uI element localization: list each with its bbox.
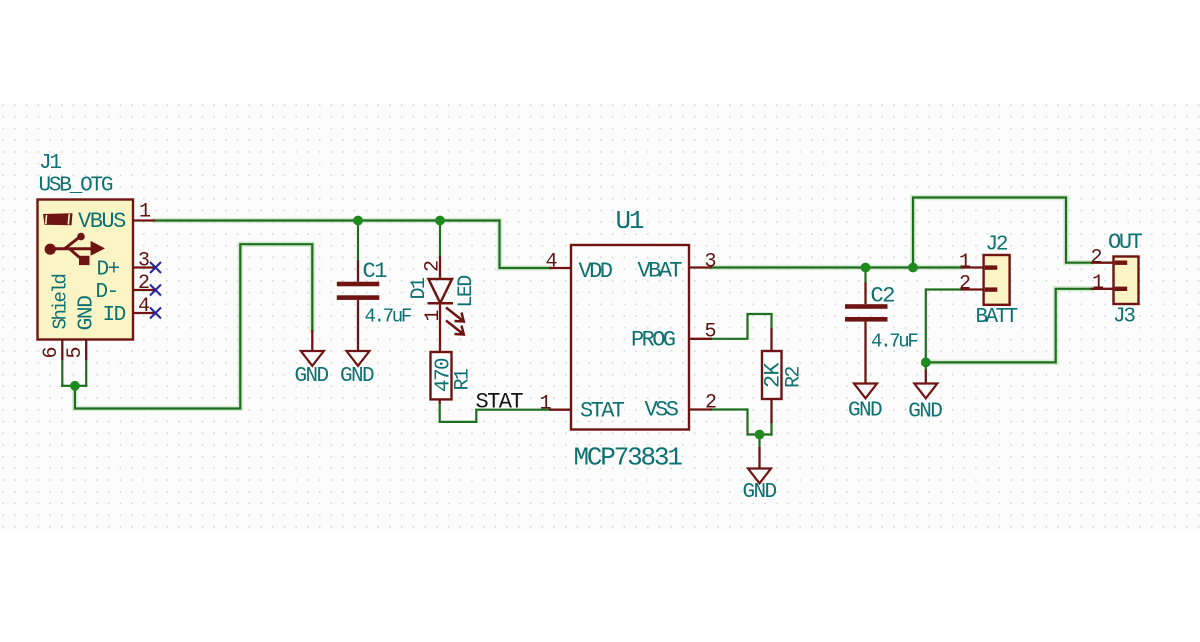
lead batt gnd [925, 370, 927, 384]
led D1 triangle [428, 279, 464, 335]
pin J1-4 ID [133, 312, 155, 314]
junction C2/VBAT [861, 263, 871, 273]
led D1 arrows [446, 308, 463, 321]
wire D1 top [439, 221, 441, 257]
svg-text:BATT: BATT [976, 306, 1018, 329]
pin numbers (maroon) [40, 201, 1104, 416]
no-connect x D- [150, 285, 161, 296]
svg-text:C2: C2 [871, 284, 895, 309]
lead left gnd [311, 330, 313, 351]
svg-text:4: 4 [138, 295, 150, 318]
lead C2 lower to gnd [864, 322, 866, 384]
pin J1-6 shield [61, 340, 63, 361]
svg-text:USB_OTG: USB_OTG [39, 175, 113, 198]
pin J2-2 [961, 288, 984, 290]
svg-text:J1: J1 [39, 152, 61, 175]
junction J1 shield/gnd [70, 381, 80, 391]
lead R2 top [770, 328, 772, 351]
svg-text:STAT: STAT [476, 390, 524, 415]
svg-text:U1: U1 [616, 206, 644, 236]
capacitor C1 plates [337, 282, 380, 300]
connector J1 body [38, 200, 134, 340]
lead C1 lower to gnd [357, 300, 359, 351]
wire R1 to STAT [440, 404, 549, 422]
svg-text:GND: GND [848, 400, 882, 423]
connector J3 body [1114, 257, 1139, 305]
junction C1/VBUS [353, 216, 363, 226]
pin J3-2 [1091, 262, 1114, 264]
junction batt gnd [921, 358, 931, 368]
wire PROG to R2 [712, 314, 772, 339]
svg-text:1: 1 [139, 201, 151, 224]
svg-text:4.7uF: 4.7uF [365, 306, 412, 328]
svg-text:J3: J3 [1113, 306, 1135, 329]
svg-text:VBAT: VBAT [638, 259, 683, 284]
svg-text:D-: D- [96, 281, 118, 304]
connector J2 body [984, 255, 1010, 305]
capacitor C2 plates [845, 304, 888, 321]
svg-text:R1: R1 [452, 368, 475, 390]
wire C1 top [357, 221, 359, 261]
junction R2/VSS gnd [755, 430, 765, 440]
svg-text:1: 1 [1092, 272, 1104, 295]
svg-text:GND: GND [340, 365, 374, 388]
pin U1-3 VBAT [689, 266, 712, 268]
svg-text:LED: LED [455, 276, 478, 308]
svg-text:GND: GND [295, 365, 329, 388]
resistor R1 body [431, 352, 452, 399]
wire J1 pin5 drop [85, 360, 87, 386]
ground C2 [854, 384, 877, 399]
connector J2 pin pads [985, 265, 998, 291]
svg-text:J2: J2 [986, 234, 1008, 257]
svg-text:GND: GND [743, 481, 777, 504]
lead R2 gnd [758, 447, 760, 469]
wire shield-gnd link [62, 385, 86, 387]
svg-text:6: 6 [40, 346, 63, 358]
pin U1-1 STAT [549, 409, 571, 411]
grid band [0, 104, 1200, 530]
wire VSS to junction [712, 410, 772, 435]
svg-text:PROG: PROG [631, 328, 675, 353]
resistor R2 body [762, 351, 782, 399]
ic U1 body [571, 245, 689, 430]
svg-text:VBUS: VBUS [78, 209, 126, 234]
svg-text:3: 3 [705, 251, 717, 274]
svg-text:5: 5 [705, 321, 717, 344]
pin J1-2 D- [133, 289, 155, 291]
svg-text:C1: C1 [363, 259, 388, 284]
pin J1-1 VBUS [133, 219, 155, 221]
wire J1 pin6 drop [61, 360, 63, 386]
no-connect x ID [150, 308, 161, 319]
svg-text:D1: D1 [408, 277, 431, 299]
svg-text:4: 4 [546, 251, 558, 274]
wire vss junction to gnd [758, 435, 760, 448]
svg-text:VDD: VDD [579, 259, 613, 284]
pin J1-3 D+ [133, 266, 155, 268]
svg-text:1: 1 [422, 309, 445, 321]
wire R2 bottom [770, 423, 772, 435]
pin U1-5 PROG [689, 338, 712, 340]
ground R2 [748, 469, 771, 484]
svg-text:ID: ID [103, 304, 126, 327]
pin J1-5 gnd [85, 340, 87, 361]
junction D1/VBUS [435, 216, 445, 226]
lead C1 upper [357, 261, 359, 282]
svg-text:MCP73831: MCP73831 [574, 443, 683, 473]
wire branch up to OUT [913, 198, 1091, 268]
wire VBAT main [712, 266, 961, 268]
svg-text:1: 1 [959, 251, 971, 274]
usb plug icon [43, 213, 73, 225]
wire batt gnd to J3 pin1 [926, 289, 1091, 363]
svg-text:2: 2 [138, 272, 150, 295]
svg-text:GND: GND [75, 296, 99, 331]
lead D1 bottom to R1 [439, 304, 441, 353]
wire J2 pin2 to gnd [926, 290, 961, 371]
svg-text:2: 2 [959, 273, 971, 296]
wire halos [75, 198, 1091, 409]
pin J3-1 [1091, 288, 1114, 290]
lead C2 upper [864, 283, 866, 305]
svg-text:Shield: Shield [50, 274, 72, 329]
svg-text:3: 3 [138, 250, 150, 273]
svg-text:4.7uF: 4.7uF [871, 331, 918, 353]
ground shield [301, 351, 324, 366]
wire C2 top [864, 268, 866, 283]
svg-text:1: 1 [540, 393, 552, 416]
svg-text:2: 2 [705, 392, 717, 415]
ground batt [914, 384, 937, 399]
junction OUT branch/VBAT [908, 263, 918, 273]
lead R2 bottom [770, 399, 772, 423]
svg-text:STAT: STAT [580, 399, 625, 424]
usb trident icon [52, 238, 91, 258]
svg-text:D+: D+ [97, 259, 120, 282]
lead D1 top [439, 256, 441, 279]
svg-text:2: 2 [422, 260, 445, 272]
svg-text:GND: GND [908, 401, 942, 424]
connector J3 pin pads [1115, 261, 1128, 292]
svg-text:5: 5 [64, 346, 87, 358]
lead R1 bottom [439, 399, 441, 403]
svg-text:R2: R2 [783, 367, 806, 388]
ground C1 [347, 351, 370, 366]
pin U1-4 VDD [549, 267, 571, 269]
svg-text:VSS: VSS [645, 398, 679, 423]
wire VBUS main [155, 221, 549, 269]
pin J2-1 [961, 266, 984, 268]
svg-text:2: 2 [1091, 247, 1103, 270]
wire shield to gnd run [75, 244, 312, 408]
no-connect x D+ [150, 262, 161, 319]
svg-text:OUT: OUT [1108, 230, 1143, 255]
pin U1-2 VSS [689, 408, 712, 410]
